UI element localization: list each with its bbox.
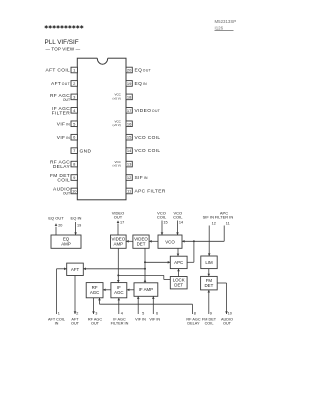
svg-text:15: 15 (163, 221, 167, 225)
svg-text:OUT: OUT (223, 322, 232, 326)
pin 8 box (71, 161, 77, 167)
header asterisks row (45, 25, 48, 29)
block IF AMP (134, 283, 158, 297)
svg-text:OUT: OUT (63, 98, 70, 102)
wire AFT left to pin 1 (57, 268, 67, 270)
svg-text:FILTER: FILTER (52, 110, 71, 116)
svg-text:4: 4 (121, 311, 123, 315)
svg-text:M52313SP: M52313SP (215, 19, 237, 24)
pin 7 box (71, 148, 77, 154)
wire VIF to IF AMP pin 6 (152, 296, 154, 314)
wire LIM to FM DET (208, 269, 210, 277)
svg-text:(+5 V): (+5 V) (113, 123, 121, 127)
pin 4 box (71, 108, 77, 114)
pin 18 box (126, 94, 132, 100)
block VIDEO DET (133, 235, 149, 248)
svg-text:EQIN: EQIN (135, 81, 148, 87)
svg-text:(+5 V): (+5 V) (113, 163, 121, 167)
pin 17 box (126, 108, 132, 114)
svg-text:14: 14 (179, 221, 183, 225)
wire VCO bottom to APC top (177, 248, 179, 256)
pin 10 box (71, 188, 77, 194)
block RF AGC (86, 283, 103, 298)
svg-text:10: 10 (228, 311, 232, 315)
svg-text:DET: DET (137, 242, 146, 247)
svg-text:9: 9 (210, 311, 212, 315)
svg-text:LIM: LIM (205, 260, 213, 265)
svg-text:VIDEOOUT: VIDEOOUT (135, 108, 161, 114)
svg-text:3: 3 (95, 311, 97, 315)
block FM DET (201, 276, 218, 290)
svg-text:OUT: OUT (114, 215, 123, 220)
svg-text:APC FILTER: APC FILTER (135, 189, 166, 195)
svg-text:SIFIN: SIFIN (135, 175, 149, 181)
svg-text:VIFIN: VIFIN (57, 121, 71, 127)
svg-text:EQ OUT: EQ OUT (48, 215, 64, 220)
svg-text:PLL VIF/SIF: PLL VIF/SIF (45, 39, 79, 46)
svg-text:OUT: OUT (71, 322, 80, 326)
pin 16 box (126, 121, 132, 127)
wire FM DET to pin 9 (208, 290, 210, 314)
svg-text:(+5 V): (+5 V) (113, 96, 121, 100)
svg-text:2: 2 (76, 311, 78, 315)
wire B: VIDEO DET bottom down to IF AMP (144, 248, 146, 282)
wire IF AMP to IF AGC (127, 289, 134, 291)
block APC (170, 256, 187, 268)
wire VIF to IF AMP pin 5 (137, 296, 139, 314)
pin 6 box (71, 134, 77, 140)
pin 9 box (71, 175, 77, 181)
svg-text:IF AMP: IF AMP (139, 287, 153, 292)
junction A to LOCK DET branch (117, 274, 119, 276)
svg-text:COIL: COIL (205, 322, 214, 326)
svg-text:COIL: COIL (157, 215, 167, 220)
svg-text:FILTER IN: FILTER IN (215, 215, 234, 220)
pin 20 box (126, 67, 132, 73)
svg-text:GND: GND (80, 148, 92, 154)
svg-text:5: 5 (142, 311, 144, 315)
block LIM (201, 256, 217, 269)
svg-text:17: 17 (120, 221, 124, 225)
svg-text:EQOUT: EQOUT (135, 68, 152, 74)
svg-text:16: 16 (127, 121, 132, 126)
svg-text:VCO COIL: VCO COIL (135, 135, 161, 141)
block IF AGC (111, 283, 127, 298)
svg-text:AFT COIL: AFT COIL (46, 68, 71, 74)
wire APC to VCO (horizontal, pin 11 branch) (182, 240, 224, 242)
svg-text:1: 1 (58, 311, 60, 315)
wire RF AGC delay to pin 8 (99, 298, 101, 304)
svg-text:6: 6 (156, 311, 158, 315)
wire RF AGC out to pin 3 (93, 298, 95, 314)
svg-text:20: 20 (127, 68, 132, 73)
pin 15 box (126, 134, 132, 140)
block LOCK DET (170, 277, 187, 289)
svg-text:AFT: AFT (71, 267, 80, 272)
svg-text:DELAY: DELAY (187, 322, 200, 326)
wire AFT bottom to pin 2 (74, 276, 76, 315)
svg-text:VCO COIL: VCO COIL (135, 148, 161, 154)
block VIDEO AMP (111, 235, 127, 248)
block AFT (67, 263, 84, 275)
svg-text:EQ IN: EQ IN (71, 215, 82, 220)
svg-text:COIL: COIL (173, 215, 183, 220)
wire B branch to APC left (145, 261, 170, 263)
svg-text:— TOP VIEW —: — TOP VIEW — (46, 46, 81, 51)
pin 1 box (71, 67, 77, 73)
pin 3 box (71, 94, 77, 100)
pin 12 box (126, 175, 132, 181)
svg-text:OUT: OUT (91, 322, 100, 326)
svg-text:AMP: AMP (61, 242, 71, 247)
svg-text:COIL: COIL (57, 178, 70, 184)
svg-text:SIF IN: SIF IN (203, 215, 214, 220)
pin-1 index notch (97, 57, 107, 59)
svg-text:APC: APC (174, 260, 183, 265)
svg-text:19: 19 (127, 81, 132, 86)
IC package body U1 M52313SP (77, 58, 126, 200)
wire A branch to LOCK DET (118, 274, 164, 276)
block EQ AMP (51, 235, 81, 248)
svg-text:IN: IN (55, 322, 59, 326)
junction APC/VCO wire (193, 240, 195, 242)
wire VIDEO DET to VIDEO AMP (126, 240, 133, 242)
svg-text:12: 12 (127, 175, 132, 180)
part code underline (215, 30, 234, 32)
wire IF AGC filter to pin 4 (118, 298, 120, 314)
svg-text:FILTER IN: FILTER IN (111, 322, 129, 326)
pin 14 box (126, 148, 132, 154)
svg-text:19: 19 (77, 224, 81, 228)
wire VCO to VIDEO DET (149, 240, 158, 242)
svg-text:15: 15 (127, 135, 132, 140)
svg-text:AMP: AMP (114, 242, 124, 247)
svg-text:VIF IN: VIF IN (135, 318, 146, 322)
wire APC right to junction (193, 241, 195, 262)
svg-text:17: 17 (127, 108, 132, 113)
svg-text:AFTOUT: AFTOUT (51, 81, 70, 87)
svg-text:VIF IN: VIF IN (149, 318, 160, 322)
block VCO (158, 235, 182, 248)
svg-text:10: 10 (72, 188, 77, 193)
svg-text:AGC: AGC (90, 290, 100, 295)
pin 11 box (126, 188, 132, 194)
pin 19 box (126, 81, 132, 87)
wire B branch to AFT right (83, 268, 145, 270)
svg-text:18: 18 (127, 94, 132, 99)
svg-text:13: 13 (127, 162, 132, 167)
svg-text:DELAY: DELAY (53, 164, 71, 170)
wire FM DET right to pin 10 (217, 282, 226, 284)
svg-text:20: 20 (58, 224, 62, 228)
svg-text:VIFIN: VIFIN (57, 135, 71, 141)
pin 13 box (126, 161, 132, 167)
junction B to APC branch (144, 261, 146, 263)
wire LOCK DET to APC (arrow up) (178, 269, 180, 277)
svg-text:11: 11 (226, 221, 230, 225)
svg-text:AGC: AGC (114, 290, 124, 295)
svg-text:12: 12 (212, 221, 216, 225)
pin 2 box (71, 81, 77, 87)
pin 5 box (71, 121, 77, 127)
svg-text:I126: I126 (215, 25, 224, 30)
svg-text:8: 8 (194, 311, 196, 315)
svg-text:DET: DET (205, 283, 214, 288)
wire IF AGC to RF AGC (103, 289, 111, 291)
svg-text:VCO: VCO (165, 239, 175, 244)
svg-text:DET: DET (174, 283, 183, 288)
junction B to AFT branch (144, 268, 146, 270)
svg-text:14: 14 (127, 148, 132, 153)
wire A: VIDEO AMP bottom down to IF AGC (117, 248, 119, 282)
svg-text:OUT: OUT (63, 192, 70, 196)
